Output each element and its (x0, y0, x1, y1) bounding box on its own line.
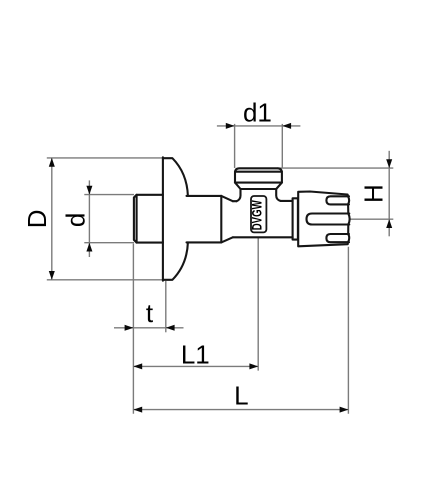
svg-text:L1: L1 (181, 340, 210, 370)
svg-text:H: H (359, 184, 389, 203)
svg-text:D: D (22, 210, 52, 229)
svg-text:DVGW: DVGW (249, 200, 265, 231)
svg-text:t: t (146, 298, 154, 328)
svg-text:L: L (234, 380, 248, 410)
svg-text:d: d (60, 213, 90, 227)
svg-text:d1: d1 (243, 98, 272, 128)
